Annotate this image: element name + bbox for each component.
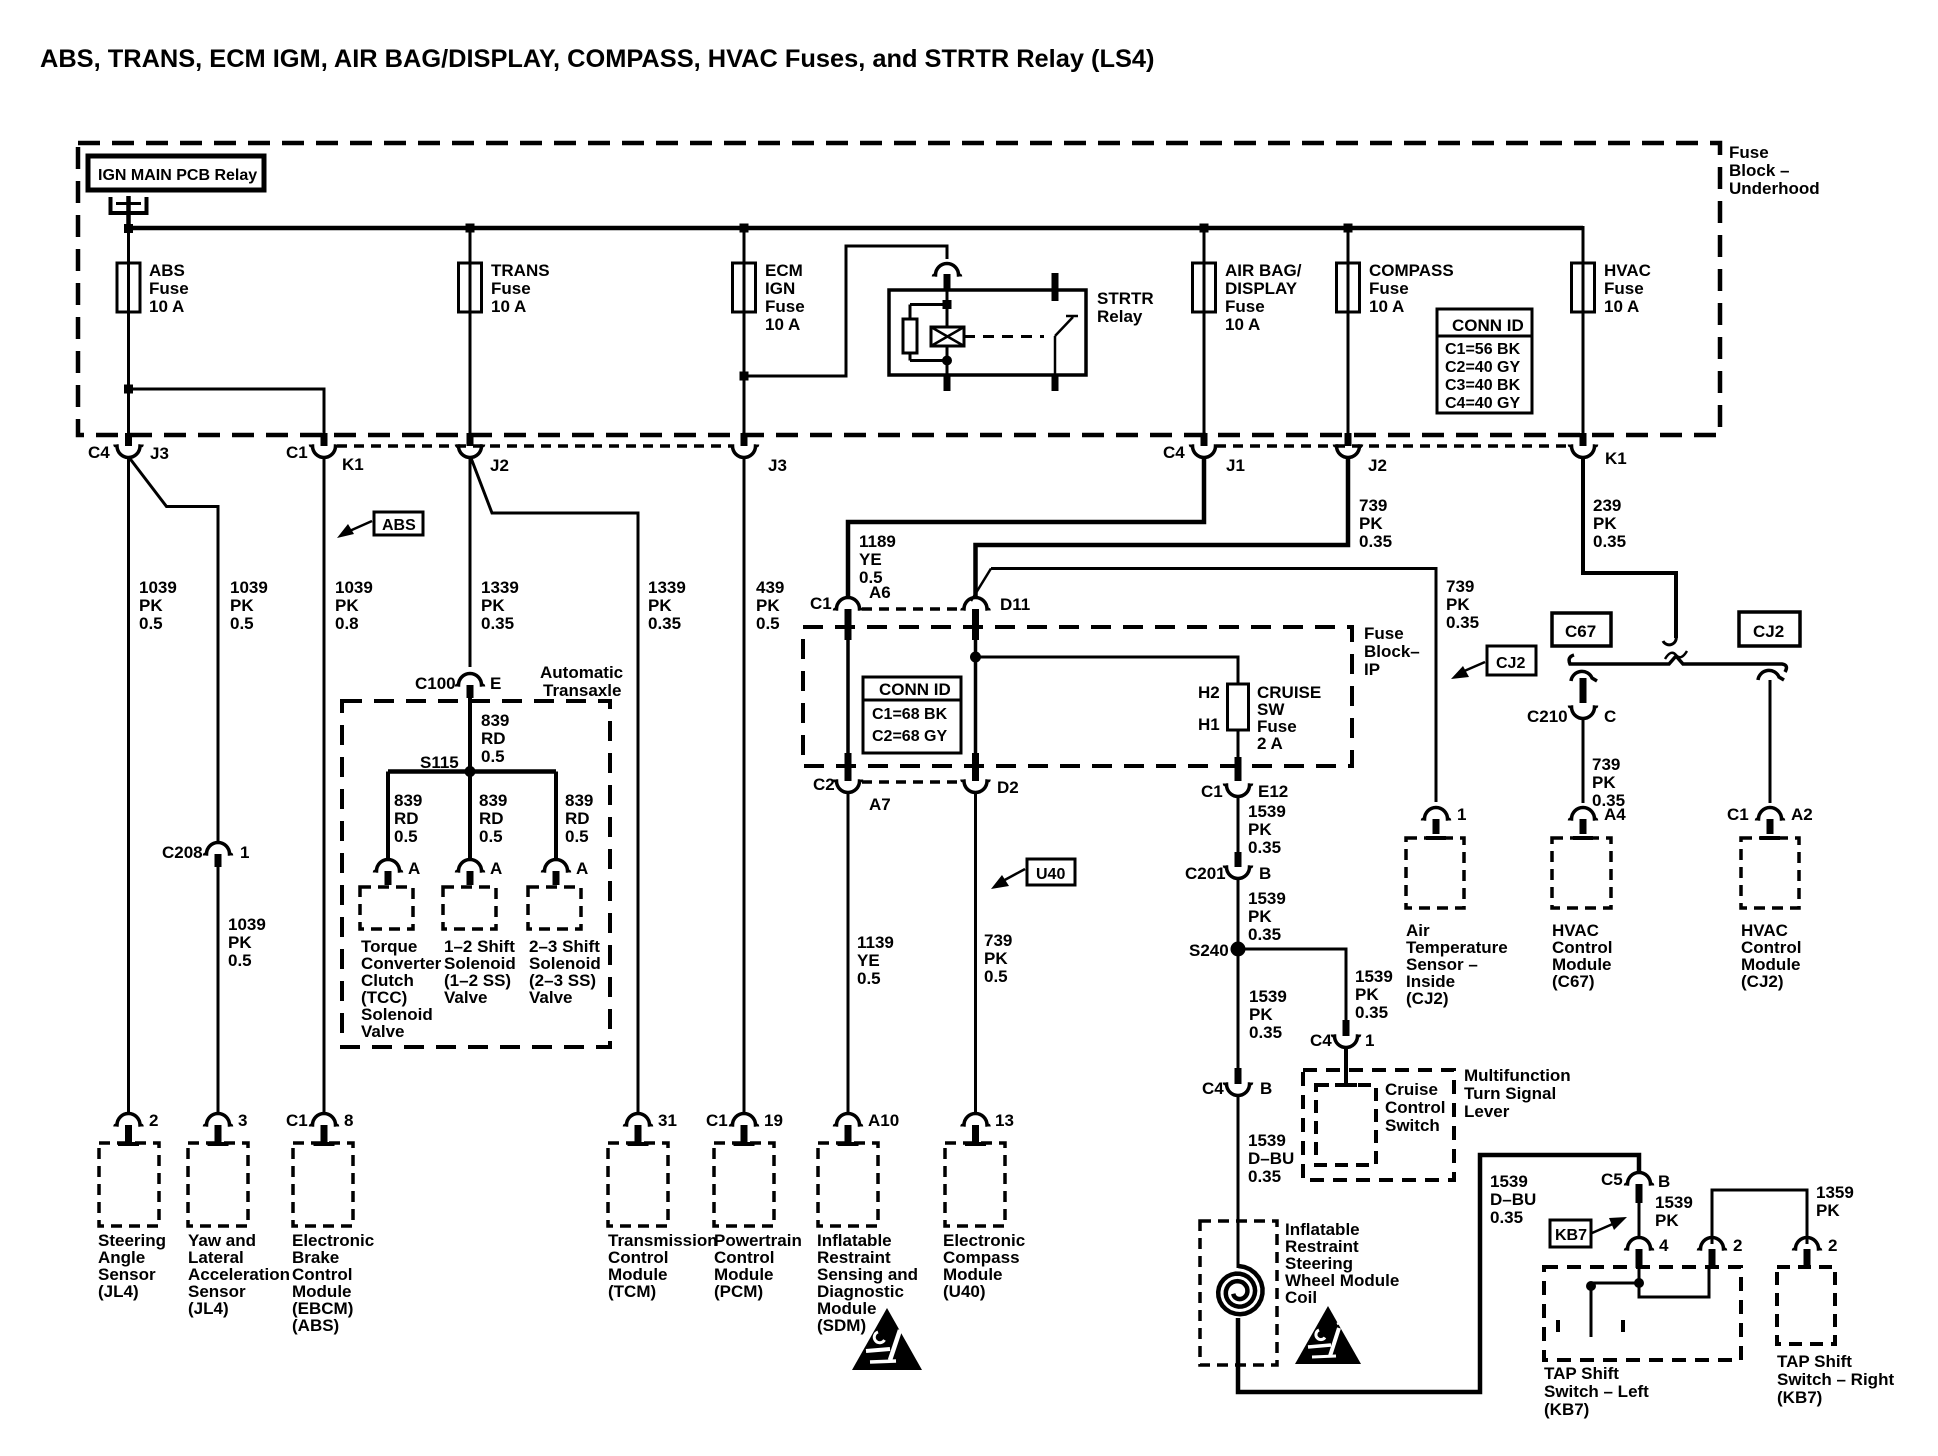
wire D11 to air temperature sensor (739 PK) [991, 569, 1436, 803]
label Transmission Control Module (TCM) [608, 1231, 718, 1301]
svg-text:239: 239 [1593, 496, 1621, 515]
svg-text:A7: A7 [869, 795, 891, 814]
svg-text:Block –: Block – [1729, 161, 1789, 180]
wire J2 diagonal branch to TCM [471, 458, 638, 1114]
svg-text:A4: A4 [1604, 805, 1626, 824]
svg-text:Valve: Valve [361, 1022, 405, 1041]
svg-text:D–BU: D–BU [1248, 1149, 1294, 1168]
svg-text:1: 1 [1457, 805, 1466, 824]
svg-text:CJ2: CJ2 [1496, 655, 1525, 672]
svg-text:A: A [490, 859, 502, 878]
wire C4/B to coil (1539 D-BU) [1237, 1095, 1240, 1268]
label 739 PK 0.35 (HVAC C67) [1592, 755, 1625, 810]
label HVAC Control Module (C67) [1552, 921, 1612, 991]
fuse COMPASS 10A [1337, 261, 1454, 316]
svg-text:C208: C208 [162, 843, 203, 862]
box EBCM (dashed) [293, 1143, 353, 1226]
svg-text:Fuse: Fuse [1364, 624, 1404, 643]
svg-text:C4: C4 [1310, 1031, 1332, 1050]
connector J2 (COMPASS) [1335, 433, 1387, 475]
svg-text:(PCM): (PCM) [714, 1282, 763, 1301]
wire S115 to 2-3 solenoid [554, 772, 558, 861]
node bus-TRANS [466, 224, 475, 233]
svg-text:Fuse: Fuse [149, 279, 189, 298]
wire ABS branch to EBCM column [124, 385, 324, 436]
connector C4/1 (cruise switch) [1310, 1020, 1374, 1050]
wire COMPASS fuse column [1347, 228, 1350, 435]
connector C208/1 splice [162, 843, 249, 868]
connector STRTR relay coil pin [934, 264, 961, 291]
warning triangle (SDM) [852, 1308, 922, 1370]
svg-text:839: 839 [479, 791, 507, 810]
table CONN ID underhood [1437, 309, 1532, 413]
label 1539 D-BU 0.35 (TAP feed) [1490, 1172, 1536, 1227]
svg-text:10 A: 10 A [149, 297, 184, 316]
svg-text:1139: 1139 [857, 933, 894, 952]
svg-text:Valve: Valve [529, 988, 573, 1007]
wire bar to C210 [1580, 678, 1587, 703]
svg-text:IGN MAIN PCB Relay: IGN MAIN PCB Relay [98, 167, 257, 184]
svg-text:0.5: 0.5 [984, 967, 1008, 986]
connector face dotted line J1-K1 [1216, 444, 1571, 448]
connector C201/B [1185, 852, 1271, 883]
wire S115 to 1-2 solenoid [468, 772, 472, 861]
svg-text:C5: C5 [1601, 1170, 1623, 1189]
svg-text:STRTR: STRTR [1097, 289, 1154, 308]
label Fuse Block - Underhood [1729, 143, 1820, 198]
wire C4/1 into cruise control switch [1335, 1047, 1357, 1085]
label Cruise Control Switch [1385, 1080, 1445, 1135]
box steering angle sensor (dashed) [99, 1143, 159, 1226]
svg-text:1339: 1339 [648, 578, 686, 597]
svg-text:0.5: 0.5 [756, 614, 780, 633]
svg-text:B: B [1260, 1079, 1272, 1098]
label 1339 PK 0.35 (TCM branch) [648, 578, 686, 633]
label 1039 PK 0.5 (yaw branch) [230, 578, 268, 633]
label Steering Angle Sensor (JL4) [98, 1231, 166, 1301]
svg-text:PK: PK [1249, 1005, 1273, 1024]
label 1189 YE 0.5 [859, 532, 896, 587]
svg-text:1: 1 [1365, 1031, 1374, 1050]
wire coil to TAP switches (1539 D-BU) [1238, 1155, 1639, 1392]
node D11 to cruise fuse [970, 652, 981, 663]
box yaw and lateral acceleration sensor (dashed) [188, 1143, 248, 1226]
label Yaw and Lateral Acceleration Sensor (JL4) [188, 1231, 290, 1318]
wire C4/J3 to steering angle sensor [127, 457, 130, 1114]
relay STRTR box [889, 290, 1086, 375]
label 1539 PK 0.35 (cruise branch) [1355, 967, 1393, 1022]
connector C1/A6 [810, 583, 891, 640]
relay STRTR coil [931, 327, 964, 346]
wire ignition bus [129, 226, 1584, 231]
box TAP shift switch right (dashed) [1777, 1267, 1835, 1344]
svg-text:PK: PK [1355, 985, 1379, 1004]
svg-text:Transaxle: Transaxle [543, 681, 621, 700]
svg-text:Relay: Relay [1097, 307, 1143, 326]
svg-text:C2=40 GY: C2=40 GY [1445, 359, 1520, 376]
svg-text:Turn Signal: Turn Signal [1464, 1084, 1556, 1103]
wire TAP left internal [1586, 1268, 1709, 1337]
wire C4/J1 to C1/A6 (1189 YE) [848, 457, 1204, 598]
svg-text:739: 739 [1359, 496, 1387, 515]
box HVAC control module C67 (dashed) [1552, 838, 1611, 908]
svg-text:0.5: 0.5 [228, 951, 252, 970]
svg-text:Fuse: Fuse [765, 297, 805, 316]
box automatic transaxle (dashed) [342, 701, 610, 1047]
connector D2 [962, 753, 1019, 797]
svg-text:439: 439 [756, 578, 784, 597]
wire C1/K1 to EBCM [323, 457, 326, 1114]
svg-text:1189: 1189 [859, 532, 896, 551]
svg-text:1539: 1539 [1490, 1172, 1528, 1191]
label TAP Shift Switch - Right (KB7) [1777, 1352, 1894, 1407]
svg-text:E12: E12 [1258, 782, 1288, 801]
connector face dotted line K1-J3 [337, 444, 732, 448]
svg-text:C: C [1604, 707, 1616, 726]
svg-text:10 A: 10 A [1604, 297, 1639, 316]
label 839 RD 0.5 (2-3 SS) [565, 791, 593, 846]
svg-text:RD: RD [481, 729, 506, 748]
box multifunction turn signal lever (dashed) [1303, 1070, 1454, 1180]
wire TAP left 2 to TAP right 2 (1359 PK) [1712, 1190, 1807, 1244]
svg-text:1539: 1539 [1248, 889, 1286, 908]
svg-text:1039: 1039 [335, 578, 373, 597]
svg-text:TAP Shift: TAP Shift [1777, 1352, 1852, 1371]
svg-text:A2: A2 [1791, 805, 1813, 824]
svg-text:839: 839 [481, 711, 509, 730]
svg-text:PK: PK [1248, 820, 1272, 839]
wire C208 to yaw sensor [217, 866, 220, 1114]
box PCM (dashed) [714, 1143, 774, 1226]
wire C201 to S240 [1237, 878, 1240, 1068]
connector C1/8 (EBCM) [286, 1111, 353, 1144]
svg-text:ABS: ABS [149, 261, 185, 280]
svg-text:IGN: IGN [765, 279, 795, 298]
svg-text:839: 839 [565, 791, 593, 810]
label 1359 PK [1816, 1183, 1854, 1220]
svg-text:(JL4): (JL4) [188, 1299, 229, 1318]
box 1-2 shift solenoid valve (dashed) [443, 887, 496, 929]
svg-text:Switch: Switch [1385, 1116, 1440, 1135]
connector C4/J3 [88, 433, 169, 463]
coil clockspring spiral [1218, 1266, 1262, 1314]
svg-text:0.35: 0.35 [1490, 1208, 1523, 1227]
svg-text:8: 8 [344, 1111, 353, 1130]
connector hook C67 side [1571, 671, 1597, 681]
label 1039 PK 0.8 [335, 578, 373, 633]
connector C1/K1 [286, 433, 364, 474]
wire ABS fuse column [127, 228, 130, 435]
svg-text:S240: S240 [1189, 941, 1229, 960]
svg-text:2: 2 [1828, 1236, 1837, 1255]
svg-text:CJ2: CJ2 [1753, 622, 1784, 641]
connector C1/19 (PCM) [706, 1111, 783, 1144]
svg-text:RD: RD [565, 809, 590, 828]
svg-text:PK: PK [481, 596, 505, 615]
fuse CRUISE SW 2A [1198, 683, 1321, 753]
svg-text:PK: PK [1592, 773, 1616, 792]
svg-text:IP: IP [1364, 660, 1380, 679]
svg-text:A: A [576, 859, 588, 878]
svg-text:2 A: 2 A [1257, 734, 1283, 753]
fuse TRANS 10A [459, 261, 550, 316]
wire HVAC fuse column [1582, 226, 1585, 435]
svg-text:0.5: 0.5 [479, 827, 503, 846]
svg-text:0.35: 0.35 [1248, 838, 1281, 857]
label 739 PK 0.5 [984, 931, 1012, 986]
svg-text:Fuse: Fuse [1604, 279, 1644, 298]
svg-text:31: 31 [658, 1111, 677, 1130]
svg-text:C3=40 BK: C3=40 BK [1445, 377, 1521, 394]
svg-text:PK: PK [648, 596, 672, 615]
svg-text:H2: H2 [1198, 683, 1220, 702]
fuse ECM IGN 10A [733, 261, 805, 334]
wire A6 to C2/A7 through IP [846, 631, 850, 779]
fuse ABS 10A [117, 261, 189, 316]
box CJ2 label [1739, 612, 1800, 646]
connector C2/A7 [813, 753, 891, 814]
connector 31 (TCM) [625, 1111, 677, 1144]
svg-text:Control: Control [1385, 1098, 1445, 1117]
connector C5/B [1601, 1170, 1670, 1203]
svg-text:PK: PK [1816, 1201, 1840, 1220]
svg-text:(C67): (C67) [1552, 972, 1595, 991]
svg-text:C100: C100 [415, 674, 456, 693]
box TCM (dashed) [608, 1143, 668, 1226]
label Inflatable Restraint Sensing and Diagnostic Module (SDM) [817, 1231, 918, 1335]
svg-text:(CJ2): (CJ2) [1741, 972, 1784, 991]
svg-text:PK: PK [228, 933, 252, 952]
svg-text:739: 739 [1592, 755, 1620, 774]
svg-text:Fuse: Fuse [491, 279, 531, 298]
connector 2 (TAP right) [1794, 1236, 1838, 1268]
node bus-ECM [740, 224, 749, 233]
label 1339 PK 0.35 (trans to C100) [481, 578, 519, 633]
box inflatable restraint steering wheel module coil (dashed) [1200, 1221, 1277, 1365]
svg-text:0.35: 0.35 [481, 614, 514, 633]
svg-text:Automatic: Automatic [540, 663, 623, 682]
wire J3 to PCM [743, 457, 746, 1114]
label 1-2 Shift Solenoid (1-2 SS) Valve [444, 937, 516, 1007]
svg-text:2: 2 [1733, 1236, 1742, 1255]
label Electronic Brake Control Module (EBCM) (ABS) [292, 1231, 374, 1335]
relay pin symbol [111, 196, 147, 228]
fuse HVAC 10A [1572, 261, 1651, 316]
svg-text:PK: PK [1359, 514, 1383, 533]
svg-text:10 A: 10 A [1225, 315, 1260, 334]
svg-text:C1=68 BK: C1=68 BK [872, 706, 948, 723]
svg-text:AIR BAG/: AIR BAG/ [1225, 261, 1302, 280]
connector 2 (TAP left) [1699, 1236, 1743, 1268]
label 739 PK 0.35 (compass) [1359, 496, 1392, 551]
wire STRTR coil circuit [910, 290, 952, 391]
wire C210 to A4 (739 PK) [1582, 718, 1585, 803]
label 1039 PK 0.5 (steering angle) [139, 578, 177, 633]
connector D11 [962, 569, 1030, 641]
wire to CRUISE SW fuse [976, 657, 1239, 684]
svg-text:0.5: 0.5 [139, 614, 163, 633]
svg-text:PK: PK [1446, 595, 1470, 614]
svg-text:Lever: Lever [1464, 1102, 1510, 1121]
connector C4/J1 [1163, 433, 1245, 475]
svg-text:(U40): (U40) [943, 1282, 986, 1301]
node bus-AIRBAG [1200, 224, 1209, 233]
svg-text:1539: 1539 [1655, 1193, 1693, 1212]
connector C1/E12 [1201, 757, 1288, 801]
svg-text:DISPLAY: DISPLAY [1225, 279, 1298, 298]
box air temperature sensor (dashed) [1406, 838, 1464, 908]
svg-text:0.5: 0.5 [394, 827, 418, 846]
svg-text:10 A: 10 A [491, 297, 526, 316]
box HVAC control module CJ2 (dashed) [1741, 838, 1799, 908]
label 839 RD 0.5 (TCC) [394, 791, 422, 846]
svg-text:3: 3 [238, 1111, 247, 1130]
svg-text:4: 4 [1659, 1236, 1669, 1255]
svg-text:0.35: 0.35 [1248, 1167, 1281, 1186]
svg-text:C1: C1 [1201, 782, 1223, 801]
terminal tick right [1621, 1320, 1625, 1332]
wire ECM IGN fuse column [743, 228, 746, 435]
svg-text:E: E [490, 674, 501, 693]
svg-text:H1: H1 [1198, 715, 1220, 734]
svg-text:0.35: 0.35 [1249, 1023, 1282, 1042]
fuse AIR BAG/DISPLAY 10A [1193, 261, 1302, 334]
svg-text:Valve: Valve [444, 988, 488, 1007]
connector A4 (HVAC C67) [1570, 805, 1627, 838]
svg-text:ABS: ABS [382, 517, 416, 534]
svg-text:PK: PK [230, 596, 254, 615]
label 839 RD 0.5 (C100 to S115) [481, 711, 509, 766]
svg-text:1539: 1539 [1355, 967, 1393, 986]
wire C4/J3 diagonal branch to C208 [130, 458, 219, 842]
connector 2 (steering angle sensor) [115, 1111, 158, 1144]
relay STRTR switch [1052, 273, 1079, 391]
connector C210/C [1527, 706, 1616, 727]
wire bar to HVAC CJ2 [1769, 680, 1772, 803]
svg-text:10 A: 10 A [1369, 297, 1404, 316]
wire C5/B to terminal 4 [1638, 1203, 1641, 1238]
wire J2 COMPASS to D11 (739 PK) [976, 457, 1349, 599]
connector 1 (air temp sensor) [1423, 805, 1467, 838]
wire E12 to C201 (1539 PK) [1237, 795, 1240, 860]
svg-text:1539: 1539 [1248, 802, 1286, 821]
svg-text:Fuse: Fuse [1729, 143, 1769, 162]
svg-text:0.35: 0.35 [1446, 613, 1479, 632]
svg-text:1539: 1539 [1249, 987, 1287, 1006]
box TAP shift switch left (dashed) [1544, 1267, 1741, 1360]
svg-text:PK: PK [335, 596, 359, 615]
svg-text:B: B [1259, 864, 1271, 883]
svg-text:739: 739 [984, 931, 1012, 950]
connector hook CJ2 side [1758, 670, 1784, 680]
svg-text:739: 739 [1446, 577, 1474, 596]
svg-text:Block–: Block– [1364, 642, 1420, 661]
box fuse block IP (dashed) [803, 627, 1352, 766]
label 239 PK 0.35 [1593, 496, 1626, 551]
svg-text:839: 839 [394, 791, 422, 810]
svg-text:TRANS: TRANS [491, 261, 550, 280]
svg-text:0.35: 0.35 [1248, 925, 1281, 944]
wire D2 to compass module (739 PK) [974, 792, 977, 1114]
svg-text:Switch – Right: Switch – Right [1777, 1370, 1894, 1389]
svg-text:PK: PK [1593, 514, 1617, 533]
svg-text:D–BU: D–BU [1490, 1190, 1536, 1209]
wire end hook above splice bar [1663, 636, 1676, 645]
svg-text:PK: PK [139, 596, 163, 615]
svg-text:RD: RD [394, 809, 419, 828]
svg-text:A10: A10 [868, 1111, 899, 1130]
connector 4 (TAP left) [1626, 1236, 1670, 1268]
svg-text:0.8: 0.8 [335, 614, 359, 633]
connector J3 (ECM) [731, 433, 787, 475]
svg-text:10 A: 10 A [765, 315, 800, 334]
svg-text:C1=56 BK: C1=56 BK [1445, 341, 1521, 358]
node bus-ABS [124, 224, 133, 233]
svg-text:J3: J3 [768, 456, 787, 475]
label 439 PK 0.5 [756, 578, 784, 633]
svg-text:C201: C201 [1185, 864, 1226, 883]
svg-text:C2: C2 [813, 775, 835, 794]
relay IGN MAIN PCB Relay label box [88, 156, 264, 190]
label 1139 YE 0.5 [857, 933, 894, 988]
svg-text:COMPASS: COMPASS [1369, 261, 1454, 280]
svg-text:A: A [408, 859, 420, 878]
svg-text:J3: J3 [150, 444, 169, 463]
svg-text:KB7: KB7 [1555, 1227, 1587, 1244]
svg-text:Switch – Left: Switch – Left [1544, 1382, 1649, 1401]
wire CRUISE fuse to E12 [1237, 730, 1240, 770]
svg-text:13: 13 [995, 1111, 1014, 1130]
svg-text:(JL4): (JL4) [98, 1282, 139, 1301]
box C67 label [1552, 613, 1611, 646]
svg-text:PK: PK [756, 596, 780, 615]
splice bar (internal connection) [1569, 655, 1786, 672]
svg-text:C4=40 GY: C4=40 GY [1445, 395, 1520, 412]
wire STRTR relay feed from ECM column [740, 246, 948, 381]
label 1539 PK (C5-4) [1655, 1193, 1693, 1230]
svg-text:C1: C1 [706, 1111, 728, 1130]
svg-text:C1: C1 [286, 443, 308, 462]
box cruise control switch (dashed) [1316, 1085, 1376, 1165]
wire S115 to TCC solenoid [386, 772, 390, 861]
label Multifunction Turn Signal Lever [1464, 1066, 1571, 1121]
svg-text:1359: 1359 [1816, 1183, 1854, 1202]
svg-text:J1: J1 [1226, 456, 1245, 475]
svg-text:Fuse: Fuse [1225, 297, 1265, 316]
splice S240 [1189, 941, 1246, 960]
wire AIR BAG fuse column [1203, 228, 1206, 435]
connector A (2-3 SS) [543, 859, 589, 885]
label STRTR Relay [1097, 289, 1154, 326]
label Torque Converter Clutch (TCC) Solenoid Valve [361, 937, 442, 1041]
svg-text:D11: D11 [1000, 595, 1030, 614]
callout KB7 box with arrow [1550, 1217, 1627, 1247]
box SDM (dashed) [818, 1143, 878, 1226]
svg-text:Cruise: Cruise [1385, 1080, 1438, 1099]
label Air Temperature Sensor - Inside (CJ2) [1406, 921, 1508, 1008]
svg-text:RD: RD [479, 809, 504, 828]
callout ABS box with arrow [337, 512, 423, 538]
connector K1 (HVAC) [1570, 433, 1627, 468]
svg-text:0.35: 0.35 [1593, 532, 1626, 551]
svg-text:J2: J2 [1368, 456, 1387, 475]
label 739 PK 0.35 (air temp) [1446, 577, 1479, 632]
svg-text:0.35: 0.35 [1355, 1003, 1388, 1022]
wire STRTR coil-switch dashed link [964, 335, 1044, 338]
svg-text:0.5: 0.5 [481, 747, 505, 766]
svg-text:C4: C4 [1202, 1079, 1224, 1098]
svg-text:1: 1 [240, 843, 249, 862]
